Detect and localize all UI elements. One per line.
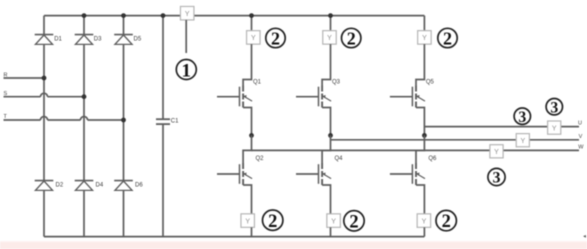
test point box TP3 U <box>548 121 561 134</box>
wire leg 3 upper <box>423 16 425 31</box>
svg-text:C1: C1 <box>171 118 179 124</box>
svg-text:2: 2 <box>268 212 277 232</box>
wire leg 1 upper <box>251 16 253 31</box>
svg-text:3: 3 <box>550 99 558 116</box>
wire top DC+ rail <box>44 15 424 17</box>
wire rectifier column 3 <box>123 16 125 237</box>
transistor Q3 <box>296 44 341 135</box>
node phase junction leg 2 <box>328 133 333 138</box>
svg-text:Q6: Q6 <box>428 156 437 162</box>
transistor Q6 <box>390 136 437 214</box>
transistor Q2 <box>217 136 264 214</box>
node junction top rail / leg 1 <box>249 13 254 18</box>
node circled 2 lower leg 3 <box>436 210 456 232</box>
node phase junction leg 1 <box>249 133 254 138</box>
node circled 2 upper leg 2 <box>342 28 361 48</box>
svg-text:Q2: Q2 <box>256 156 265 162</box>
test point box TP1 <box>180 6 194 20</box>
transistor Q1 <box>217 44 262 135</box>
svg-text:D1: D1 <box>54 36 62 42</box>
test point box TP3 V <box>516 134 529 147</box>
svg-text:Y: Y <box>422 35 427 42</box>
svg-text:2: 2 <box>349 212 358 232</box>
svg-text:V: V <box>579 134 583 140</box>
node junction top rail / DC link <box>161 13 166 18</box>
transistor Q4 <box>296 136 343 214</box>
wire output W <box>252 149 580 151</box>
svg-text:Q5: Q5 <box>426 80 435 86</box>
node phase junction leg 3 <box>422 133 427 138</box>
transistor Q5 <box>390 44 435 135</box>
node circled 2 lower leg 1 <box>263 210 283 232</box>
diode D5 <box>114 35 142 45</box>
test point box TP2 upper leg 2 <box>323 31 337 45</box>
svg-text:2: 2 <box>271 28 280 48</box>
svg-text:D4: D4 <box>96 182 104 188</box>
svg-text:Y: Y <box>422 218 427 225</box>
svg-text:Q4: Q4 <box>335 156 344 162</box>
wire DC link column <box>162 16 164 237</box>
node junction top rail / column 2 <box>82 13 87 18</box>
svg-text:Y: Y <box>331 218 336 225</box>
diode D3 <box>75 35 102 45</box>
diode D2 <box>35 181 64 191</box>
svg-text:3: 3 <box>493 170 501 187</box>
svg-text:D3: D3 <box>94 36 102 42</box>
diode D4 <box>75 181 104 191</box>
wire leg 1 lower to rail <box>251 227 253 236</box>
wire leg 2 lower to rail <box>330 227 332 236</box>
svg-text:D6: D6 <box>135 182 143 188</box>
test point box TP2 upper leg 1 <box>247 31 260 45</box>
node cursor mark <box>583 235 586 238</box>
svg-text:3: 3 <box>518 109 526 126</box>
svg-text:W: W <box>578 145 584 151</box>
svg-text:Y: Y <box>185 11 190 18</box>
node junction top rail / column 3 <box>121 13 126 18</box>
node circled 2 upper leg 3 <box>438 28 457 48</box>
wire leg 2 upper <box>330 16 332 31</box>
node circled 3 U <box>546 99 562 117</box>
test point box TP2 lower leg 3 <box>417 214 431 228</box>
svg-text:D2: D2 <box>56 182 64 188</box>
svg-text:U: U <box>578 120 582 126</box>
svg-text:Y: Y <box>251 35 256 42</box>
diode D6 <box>114 181 143 191</box>
wire output V <box>331 139 580 141</box>
wire output U <box>424 126 579 128</box>
svg-text:D5: D5 <box>134 36 142 42</box>
wire TP1 stub <box>185 20 187 53</box>
capacitor C1 <box>156 118 179 124</box>
wire rectifier column 1 <box>43 16 45 237</box>
node circled 1 <box>176 60 196 82</box>
wire bottom DC- rail <box>44 236 424 238</box>
svg-text:Q1: Q1 <box>253 80 262 86</box>
svg-text:2: 2 <box>443 28 452 48</box>
node circled 3 V <box>514 108 530 126</box>
node circled 2 upper leg 1 <box>266 28 285 48</box>
wire leg 3 lower to rail <box>423 227 425 236</box>
svg-text:Q3: Q3 <box>332 80 341 86</box>
svg-text:1: 1 <box>182 60 192 81</box>
svg-text:Y: Y <box>327 35 332 42</box>
svg-text:Y: Y <box>552 125 557 132</box>
test point box TP3 W <box>490 145 503 158</box>
svg-text:2: 2 <box>442 212 451 232</box>
test point box TP2 lower leg 2 <box>327 214 341 228</box>
node circled 3 W <box>488 168 505 186</box>
wire rectifier column 2 <box>83 16 85 237</box>
svg-text:Y: Y <box>520 138 525 145</box>
node circled 2 lower leg 2 <box>344 211 364 233</box>
svg-text:2: 2 <box>347 28 356 48</box>
svg-text:Y: Y <box>494 149 499 156</box>
test point box TP2 lower leg 1 <box>241 214 255 228</box>
svg-text:Y: Y <box>245 218 250 225</box>
diode D1 <box>35 35 63 45</box>
test point box TP2 upper leg 3 <box>418 31 432 45</box>
node junction top rail / leg 2 <box>328 13 333 18</box>
